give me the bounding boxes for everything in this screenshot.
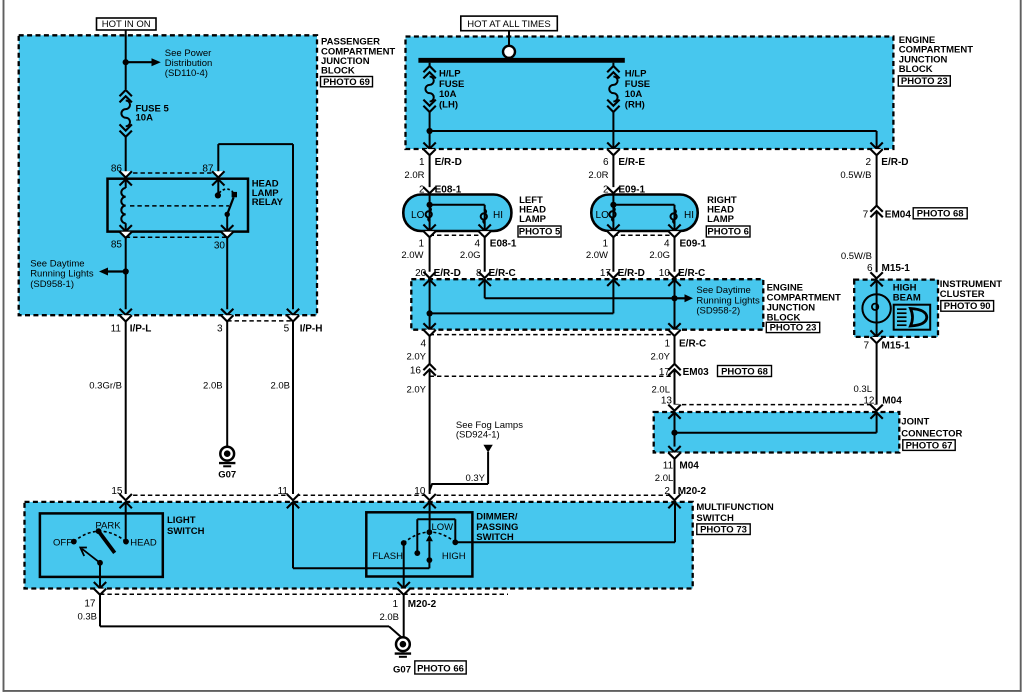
svg-text:PHOTO 68: PHOTO 68 xyxy=(721,366,768,377)
wire hot-in-on feed xyxy=(125,30,127,89)
engine compartment junction block middle (cyan) xyxy=(411,279,763,330)
wire 0.3L cluster to 12 xyxy=(876,343,878,404)
svg-text:H/LP: H/LP xyxy=(439,69,461,80)
connector line M20-2 top xyxy=(126,494,675,496)
pin 1 M20-2 connector xyxy=(398,582,410,588)
svg-text:4: 4 xyxy=(474,239,480,250)
wire 2.0W RH xyxy=(612,238,614,273)
svg-text:13: 13 xyxy=(661,395,673,406)
pin 16 connector EM03 xyxy=(423,364,435,370)
pin 3 connector xyxy=(221,309,233,315)
wire dimmer HIGH to pin 2 xyxy=(455,541,675,543)
instrument cluster block (cyan) xyxy=(854,280,938,337)
pin 4 connector xyxy=(423,323,435,329)
svg-text:PHOTO 5: PHOTO 5 xyxy=(519,227,561,238)
ground G07 bottom xyxy=(396,637,410,651)
light switch arc xyxy=(74,531,126,541)
pin 2 E08-1 connector xyxy=(423,187,435,193)
pin 17 connector xyxy=(94,582,106,588)
engine compartment junction block top (cyan) xyxy=(406,37,894,150)
svg-text:1: 1 xyxy=(602,239,608,250)
svg-text:M04: M04 xyxy=(679,461,699,472)
connector line 85-30 xyxy=(126,236,228,238)
svg-text:1: 1 xyxy=(664,339,670,350)
svg-text:LO: LO xyxy=(596,210,610,221)
svg-text:HOT IN ON: HOT IN ON xyxy=(102,19,151,30)
svg-text:2.0R: 2.0R xyxy=(404,170,424,181)
pin 8 E/R-C connector xyxy=(479,272,491,278)
svg-text:10: 10 xyxy=(659,268,671,279)
svg-text:2.0G: 2.0G xyxy=(460,250,481,261)
svg-text:E/R-D: E/R-D xyxy=(881,157,908,168)
light switch box xyxy=(40,513,163,577)
svg-text:PHOTO 68: PHOTO 68 xyxy=(917,209,964,220)
svg-text:6: 6 xyxy=(867,263,873,274)
pin 2 E/R-D connector xyxy=(870,143,882,149)
svg-text:15: 15 xyxy=(111,486,123,497)
wire 0.5W/B pin2 to EM04 xyxy=(876,156,878,206)
svg-text:LAMP: LAMP xyxy=(707,214,735,225)
svg-text:17: 17 xyxy=(600,268,612,279)
svg-text:See Daytime: See Daytime xyxy=(696,285,750,296)
svg-text:M15-1: M15-1 xyxy=(882,341,911,352)
svg-text:OFF: OFF xyxy=(53,538,72,549)
svg-text:PHOTO 73: PHOTO 73 xyxy=(700,525,747,536)
wire 2.0R LH xyxy=(429,156,431,188)
connector line M04 13-12 xyxy=(675,404,878,406)
right lamp LO filament xyxy=(612,207,614,221)
pin 13 connector M04 xyxy=(668,405,680,411)
svg-text:E/R-D: E/R-D xyxy=(435,157,462,168)
pin 17 E/R-D connector xyxy=(607,272,619,278)
light switch contacts xyxy=(71,539,77,545)
pin 86 connector xyxy=(120,171,132,177)
svg-text:2.0B: 2.0B xyxy=(203,381,223,392)
svg-text:LIGHT: LIGHT xyxy=(167,515,196,526)
connector line I/P 3-5 xyxy=(227,320,293,322)
svg-text:PHOTO 67: PHOTO 67 xyxy=(906,440,953,451)
svg-text:SWITCH: SWITCH xyxy=(696,513,734,524)
svg-text:0.3L: 0.3L xyxy=(854,384,873,395)
svg-text:RELAY: RELAY xyxy=(252,197,284,208)
svg-text:2.0G: 2.0G xyxy=(649,250,670,261)
label HOT AT ALL TIMES xyxy=(461,16,558,31)
svg-text:2.0L: 2.0L xyxy=(652,385,671,396)
relay coil-switch mechanical link xyxy=(130,205,229,207)
node power distribution tap xyxy=(123,59,129,65)
joint connector block (cyan) xyxy=(654,412,900,453)
wire 2.0G RH xyxy=(674,238,676,273)
fuse H/LP RH xyxy=(612,63,614,66)
wire 0.3B pin17 to ground xyxy=(99,595,101,626)
page border frame xyxy=(3,0,5,692)
svg-text:PHOTO 23: PHOTO 23 xyxy=(901,76,948,87)
wire high beam feed horizontal xyxy=(430,130,877,132)
pin 1 E/R-D connector xyxy=(423,143,435,149)
svg-text:E/R-C: E/R-C xyxy=(679,339,706,350)
svg-text:E08-1: E08-1 xyxy=(490,239,517,250)
wire high beam bus xyxy=(484,279,486,298)
svg-text:2.0W: 2.0W xyxy=(586,250,608,261)
svg-text:3: 3 xyxy=(217,324,223,335)
svg-text:2.0Y: 2.0Y xyxy=(406,385,426,396)
left head lamp body xyxy=(403,195,511,232)
wire 0.3Y fog branch xyxy=(487,452,489,484)
wire 2.0B pin1 to ground xyxy=(403,595,405,637)
wire low beam bus xyxy=(429,279,431,330)
pin 12 connector M04 xyxy=(870,405,882,411)
wire relay 87 loop to pin 5 xyxy=(217,144,219,172)
pin 20 E/R-D connector xyxy=(423,272,435,278)
svg-text:HI: HI xyxy=(684,210,694,221)
svg-text:16: 16 xyxy=(410,365,422,376)
pin 6 E/R-E connector xyxy=(607,143,619,149)
wire 2.0Y pin4 to 16 xyxy=(429,336,431,364)
svg-text:4: 4 xyxy=(664,239,670,250)
wire pin10 to dimmer apex xyxy=(429,502,431,533)
svg-text:M20-2: M20-2 xyxy=(408,599,437,610)
wire 2.0Y pin1 to 17 xyxy=(674,336,676,364)
svg-text:FLASH: FLASH xyxy=(372,551,403,562)
svg-text:1: 1 xyxy=(419,157,425,168)
right head lamp wiring xyxy=(612,194,614,207)
svg-text:H/LP: H/LP xyxy=(625,69,647,80)
relay switch fixed contact square xyxy=(232,192,237,197)
svg-text:EM03: EM03 xyxy=(683,367,710,378)
svg-text:SWITCH: SWITCH xyxy=(167,526,205,537)
node high beam feed tap xyxy=(427,128,433,134)
wire pin15 to HEAD contact xyxy=(125,502,127,542)
fuse FUSE 5 10A xyxy=(120,90,132,96)
svg-text:HOT AT ALL TIMES: HOT AT ALL TIMES xyxy=(467,19,550,30)
arrow see daytime running lights SD958-2 xyxy=(675,297,685,299)
connector line E09-1 xyxy=(613,234,674,236)
svg-text:HEAD: HEAD xyxy=(130,538,157,549)
connector EM04 pin 7 xyxy=(870,206,882,212)
svg-text:E/R-E: E/R-E xyxy=(618,157,645,168)
wire relay 85 to pin 11 I/P-L xyxy=(125,238,127,309)
svg-text:7: 7 xyxy=(863,209,869,220)
relay pin 85 connector xyxy=(120,225,132,231)
pin 10 connector xyxy=(423,494,435,500)
pin 17 connector EM03 xyxy=(668,364,680,370)
relay coil xyxy=(125,179,127,189)
svg-text:6: 6 xyxy=(603,157,609,168)
svg-text:M15-1: M15-1 xyxy=(882,263,911,274)
arrow see daytime running lights SD958-1 xyxy=(108,270,126,272)
svg-text:11: 11 xyxy=(663,461,674,472)
svg-text:2: 2 xyxy=(865,157,871,168)
svg-text:2.0Y: 2.0Y xyxy=(650,352,670,363)
svg-text:DIMMER/: DIMMER/ xyxy=(476,512,518,523)
wire 2.0Y 16 to switch pin10 xyxy=(429,369,431,494)
relay switch contact 87 xyxy=(217,179,219,196)
pin 6 M15-1 connector xyxy=(870,272,882,278)
ground G07 upper xyxy=(220,447,234,461)
right lamp HI filament xyxy=(674,210,676,224)
svg-text:85: 85 xyxy=(111,240,123,251)
light switch wiper xyxy=(99,531,115,553)
fuse H/LP LH xyxy=(429,63,431,66)
relay box head lamp relay xyxy=(108,179,249,232)
svg-text:(SD958-2): (SD958-2) xyxy=(696,306,740,317)
svg-text:I/P-H: I/P-H xyxy=(300,324,323,335)
left lamp pin4 wire xyxy=(484,224,486,232)
pin 1 E/R-C connector xyxy=(668,323,680,329)
wire light switch to pin 17 xyxy=(99,563,101,589)
svg-text:0.3Gr/B: 0.3Gr/B xyxy=(89,381,122,392)
headlamp beam icon xyxy=(894,305,931,330)
svg-text:0.3B: 0.3B xyxy=(77,612,97,623)
dimmer low-high link xyxy=(416,519,418,553)
pin 7 M15-1 connector xyxy=(870,330,882,336)
left lamp HI filament xyxy=(484,210,486,224)
svg-text:PHOTO 23: PHOTO 23 xyxy=(770,323,817,334)
svg-text:20: 20 xyxy=(415,268,427,279)
svg-text:(SD924-1): (SD924-1) xyxy=(456,429,500,440)
pin 15 connector xyxy=(120,494,132,500)
svg-text:BEAM: BEAM xyxy=(893,292,921,303)
pin 11 connector xyxy=(287,494,299,500)
left lamp pin1 wire xyxy=(429,221,431,231)
svg-text:(SD958-1): (SD958-1) xyxy=(30,279,74,290)
right lamp pin4 wire xyxy=(674,224,676,232)
svg-text:7: 7 xyxy=(863,341,869,352)
svg-text:E/R-C: E/R-C xyxy=(489,268,516,279)
svg-text:CONNECTOR: CONNECTOR xyxy=(901,428,962,439)
wire relay 30 to pin 3 xyxy=(226,238,228,309)
wire hot-at-all-times feed xyxy=(508,31,510,46)
wire 2.0G LH xyxy=(484,238,486,273)
svg-text:2.0W: 2.0W xyxy=(401,250,423,261)
svg-text:Running Lights: Running Lights xyxy=(30,268,94,279)
wire 2.0W LH xyxy=(429,238,431,273)
svg-text:LAMP: LAMP xyxy=(519,214,547,225)
dimmer arc xyxy=(404,532,456,543)
svg-text:10A: 10A xyxy=(136,113,154,124)
svg-text:2.0Y: 2.0Y xyxy=(406,352,426,363)
svg-text:G07: G07 xyxy=(218,469,236,480)
svg-text:0.3Y: 0.3Y xyxy=(465,473,485,484)
wire 2.0B pin5 to switch pin11 xyxy=(292,322,294,495)
relay pin 30 connector xyxy=(221,225,233,231)
dimmer wiper arrow xyxy=(426,535,433,542)
pin 11 M04 connector xyxy=(668,446,680,452)
svg-text:30: 30 xyxy=(214,241,226,252)
svg-text:11: 11 xyxy=(111,324,122,335)
svg-text:G07: G07 xyxy=(393,664,411,675)
svg-text:M20-2: M20-2 xyxy=(678,486,707,497)
svg-text:11: 11 xyxy=(278,486,289,497)
svg-text:2.0B: 2.0B xyxy=(379,612,399,623)
wire 2.0B pin3 to ground G07 xyxy=(226,322,228,447)
wire RH fuse to pin 6 E/R-E xyxy=(612,112,614,149)
svg-text:PHOTO 6: PHOTO 6 xyxy=(707,227,749,238)
relay pin 30 wire xyxy=(226,214,228,232)
connector line M20-2 bottom xyxy=(100,593,508,595)
svg-text:CLUSTER: CLUSTER xyxy=(940,289,985,300)
pin 10 E/R-C connector xyxy=(668,272,680,278)
connector line EM03 16-17 xyxy=(430,375,675,377)
svg-text:1: 1 xyxy=(392,599,398,610)
svg-text:E/R-C: E/R-C xyxy=(678,268,705,279)
wire 2.0R RH xyxy=(612,156,614,188)
svg-text:LOW: LOW xyxy=(432,522,454,533)
multifunction switch block (cyan) xyxy=(25,502,693,589)
left lamp LO filament xyxy=(429,207,431,221)
arrow see power distribution xyxy=(126,61,152,63)
connector line 86-87 xyxy=(126,172,219,174)
fog lamp branch triangle xyxy=(483,445,492,453)
dimmer passing switch box xyxy=(366,512,472,576)
pin 2 M20-2 connector xyxy=(668,494,680,500)
svg-text:12: 12 xyxy=(863,395,875,406)
dimmer wiper stem xyxy=(428,541,430,568)
svg-text:(RH): (RH) xyxy=(625,100,645,111)
relay switch arm xyxy=(227,197,233,214)
pin 2 E09-1 connector xyxy=(607,187,619,193)
svg-text:I/P-L: I/P-L xyxy=(130,324,152,335)
bus bar xyxy=(418,58,624,63)
node daytime running tap xyxy=(123,268,129,274)
svg-text:M04: M04 xyxy=(882,395,902,406)
svg-text:17: 17 xyxy=(84,599,96,610)
svg-text:EM04: EM04 xyxy=(885,209,912,220)
pin 5 I/P-H connector xyxy=(287,309,299,315)
svg-text:2.0L: 2.0L xyxy=(655,473,674,484)
svg-text:2.0B: 2.0B xyxy=(270,381,290,392)
svg-text:10: 10 xyxy=(414,486,426,497)
dimmer contacts xyxy=(401,540,407,546)
svg-text:8: 8 xyxy=(476,268,482,279)
right lamp pin1 wire xyxy=(612,221,614,231)
wire LH fuse to pin 1 E/R-D xyxy=(429,112,431,149)
high beam indicator bulb xyxy=(876,279,878,337)
svg-text:1: 1 xyxy=(418,239,424,250)
svg-text:(LH): (LH) xyxy=(439,100,458,111)
svg-text:LO: LO xyxy=(411,210,425,221)
svg-text:4: 4 xyxy=(420,339,426,350)
svg-text:E/R-D: E/R-D xyxy=(618,268,645,279)
svg-text:5: 5 xyxy=(284,324,290,335)
svg-text:0.5W/B: 0.5W/B xyxy=(840,170,871,181)
svg-text:PHOTO 90: PHOTO 90 xyxy=(944,301,991,312)
svg-text:2.0R: 2.0R xyxy=(588,170,608,181)
svg-text:PHOTO 66: PHOTO 66 xyxy=(417,663,464,674)
light switch common arm xyxy=(82,549,100,563)
bus bar feed circle xyxy=(503,46,515,58)
svg-text:86: 86 xyxy=(111,164,123,175)
svg-text:(SD110-4): (SD110-4) xyxy=(165,68,208,79)
joint connector wiring xyxy=(674,410,676,446)
passenger compartment junction block (cyan) xyxy=(19,35,317,315)
left head lamp wiring xyxy=(429,194,431,207)
svg-text:HI: HI xyxy=(493,210,503,221)
wire 0.5W/B EM04 to cluster xyxy=(876,211,878,272)
svg-text:BLOCK: BLOCK xyxy=(321,65,355,76)
svg-text:E09-1: E09-1 xyxy=(680,239,707,250)
svg-text:JOINT: JOINT xyxy=(901,417,929,428)
svg-text:HIGH: HIGH xyxy=(442,551,466,562)
wire 2.0L 17 to 13 xyxy=(674,369,676,404)
connector line E08-1 xyxy=(430,234,485,236)
svg-text:MULTIFUNCTION: MULTIFUNCTION xyxy=(696,502,774,513)
label HOT IN ON xyxy=(97,18,157,30)
wire FLASH to pin 1 M20-2 xyxy=(403,543,405,589)
wire 0.3Gr/B pin11 to switch pin15 xyxy=(125,322,127,495)
pin 87 connector xyxy=(212,171,224,177)
svg-text:PHOTO 69: PHOTO 69 xyxy=(323,77,370,88)
relay switch actuate arc xyxy=(219,189,233,193)
svg-text:17: 17 xyxy=(659,367,671,378)
svg-text:2: 2 xyxy=(664,486,670,497)
pin 11 I/P-L connector xyxy=(120,309,132,315)
wire pin11 to dimmer pivot xyxy=(292,502,294,569)
svg-text:E/R-D: E/R-D xyxy=(434,268,461,279)
svg-text:0.5W/B: 0.5W/B xyxy=(841,251,872,262)
right head lamp body xyxy=(591,195,697,232)
svg-text:BLOCK: BLOCK xyxy=(899,64,933,75)
connector line E/R-C 4-1 xyxy=(430,334,675,336)
wire fuse5 to relay pin 86 xyxy=(125,137,127,172)
wire 2.0L 11 to 2 xyxy=(674,459,676,495)
